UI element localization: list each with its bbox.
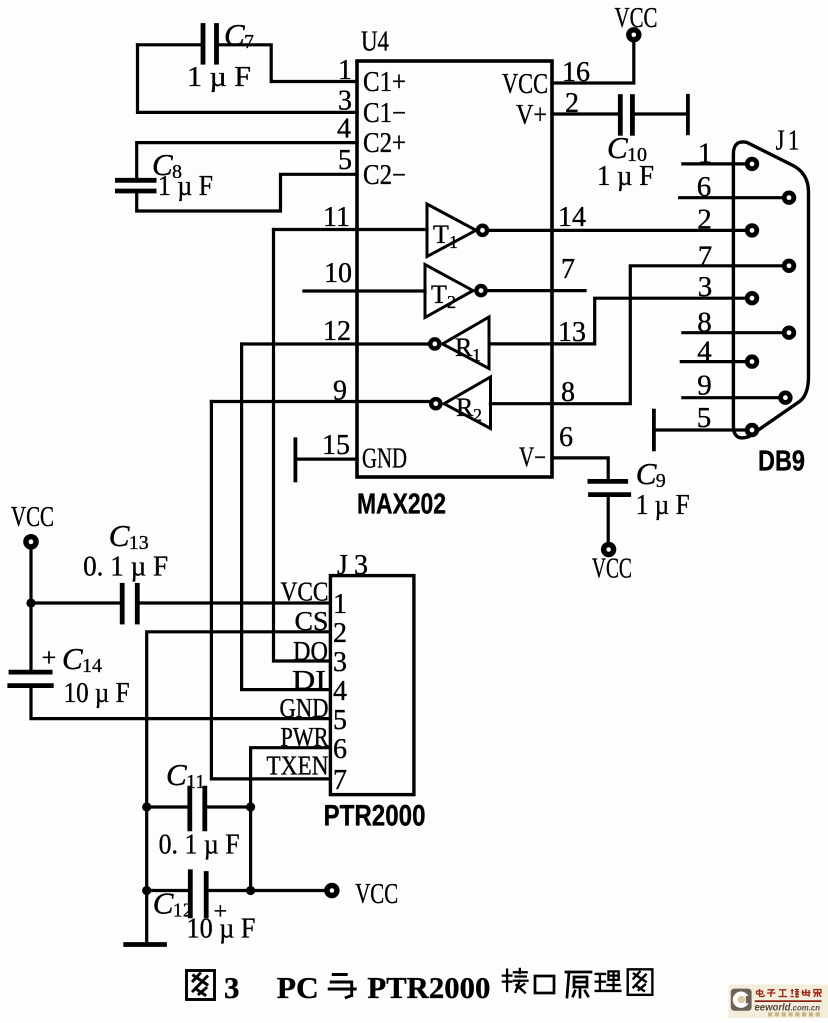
node VCC top terminal [629, 30, 639, 40]
svg-text:C: C [636, 456, 657, 491]
wire R1 input pin 13 to DB9 pin 3 [489, 298, 750, 344]
junction dot C12 left [142, 886, 151, 895]
transistor Q1 : line driver T1 triangle [427, 204, 476, 257]
svg-text:VCC: VCC [355, 878, 398, 910]
contact J1 pin 4 [747, 357, 757, 367]
svg-text:PWR: PWR [281, 722, 329, 752]
svg-text:PC: PC [277, 970, 319, 1005]
wire pin 10 stub to T2 input [304, 289, 425, 292]
svg-text:PTR2000: PTR2000 [367, 970, 490, 1005]
svg-text:7: 7 [561, 254, 575, 285]
svg-text:1 µ F: 1 µ F [636, 490, 690, 521]
svg-text:15: 15 [322, 430, 350, 461]
svg-text:1: 1 [333, 589, 347, 620]
logo chinese title 电子工程世界 [757, 989, 822, 997]
svg-text:VCC: VCC [11, 502, 54, 533]
caption chars 接口原理图 [503, 969, 653, 997]
capacitor C9 [590, 479, 626, 484]
capacitor C12 [188, 872, 193, 916]
wire J3 VCC row left segment [31, 601, 120, 604]
svg-text:DI: DI [292, 665, 326, 695]
svg-text:R: R [456, 393, 474, 422]
wire pin 4 to C8 [137, 143, 357, 178]
svg-text:C: C [224, 17, 245, 52]
svg-text:VCC: VCC [615, 3, 658, 34]
svg-text:11: 11 [186, 771, 205, 793]
svg-text:12: 12 [323, 316, 351, 347]
wire pin 12 down to J3 DI [242, 344, 331, 690]
svg-text:14: 14 [558, 202, 586, 233]
svg-text:2: 2 [447, 292, 456, 312]
bubble R2 input [431, 399, 440, 408]
logo tagline dots [768, 1012, 820, 1016]
capacitor C13 [120, 585, 125, 622]
bubble T1 output [478, 226, 487, 235]
wire J3 CS row to ground rail [147, 632, 331, 941]
svg-text:4: 4 [697, 336, 712, 368]
junction dot VCC and J3 pin1 row [26, 598, 35, 607]
wire J1 pin 1 [683, 162, 748, 165]
terminator bar J1 pin 5 [652, 411, 656, 450]
svg-text:10 µ F: 10 µ F [64, 678, 130, 709]
contact J1 pin 7 [784, 261, 794, 271]
svg-text:5: 5 [697, 402, 712, 434]
svg-text:1: 1 [698, 137, 713, 169]
capacitor C10 [618, 97, 623, 134]
connector J1 DB9 shell [733, 142, 808, 438]
svg-text:6: 6 [559, 422, 573, 453]
wire pin 9 down to J3 TXEN [211, 402, 330, 779]
caption line: 图3 PC 与 PTR2000 接口原理图 [187, 971, 215, 1000]
svg-text:4: 4 [337, 114, 351, 145]
svg-text:V−: V− [519, 443, 546, 474]
svg-text:MAX202: MAX202 [357, 489, 446, 521]
wire J3 VCC row right segment [138, 601, 330, 604]
svg-text:GND: GND [280, 693, 329, 723]
svg-text:6: 6 [333, 734, 347, 765]
bubble T2 output [476, 286, 485, 295]
wire T1 output pin 14 to DB9 pin 2 [489, 229, 750, 232]
wire C7 left stub [138, 43, 202, 46]
svg-text:14: 14 [82, 655, 102, 677]
svg-text:+: + [42, 643, 57, 672]
connector J3 body [330, 576, 414, 795]
svg-text:2: 2 [333, 618, 347, 649]
svg-text:7: 7 [244, 31, 254, 53]
svg-text:1: 1 [472, 345, 481, 365]
node VCC left terminal [26, 537, 36, 547]
wire pin 11 row to T1 input [274, 228, 428, 231]
svg-text:9: 9 [697, 370, 712, 402]
transistor Q2 : line driver T2 triangle [425, 265, 473, 318]
ground [126, 942, 165, 947]
svg-text:3: 3 [698, 271, 713, 303]
wire T2 output pin 7 stub [488, 289, 586, 292]
wire pin 15 row [295, 458, 357, 461]
svg-text:C1+: C1+ [363, 67, 406, 98]
svg-text:CS: CS [295, 606, 329, 636]
svg-text:GND: GND [362, 444, 407, 475]
wire C11 row left [147, 805, 188, 808]
svg-text:VCC: VCC [502, 69, 548, 100]
svg-text:T: T [433, 220, 449, 249]
wire C10 right [635, 112, 688, 115]
svg-text:3: 3 [333, 647, 347, 678]
op-amp U1 : chip U4 MAX202 body [357, 61, 552, 477]
wire C12 row left [147, 889, 189, 892]
wire pin 6 V- to C9 [552, 458, 608, 479]
wire J3 PWR jog down [251, 748, 331, 891]
svg-text:0. 1 µ F: 0. 1 µ F [159, 830, 240, 861]
receiver R1 triangle [443, 317, 490, 369]
wire VCC rail down to C14 [29, 549, 32, 671]
svg-text:8: 8 [697, 307, 712, 339]
contact J1 pin 5 [747, 425, 757, 435]
svg-text:eeworld.com.cn: eeworld.com.cn [755, 1002, 821, 1013]
svg-text:C2−: C2− [363, 160, 406, 191]
svg-text:4: 4 [333, 676, 347, 707]
wire R2 input pin 8 to DB9 pin 7 [490, 266, 787, 404]
wire C8 bottom to pin 5 [137, 174, 357, 211]
logo red underline [755, 1000, 822, 1002]
svg-text:3: 3 [224, 970, 240, 1005]
svg-text:7: 7 [333, 765, 347, 796]
svg-text:1 µ F: 1 µ F [187, 62, 251, 93]
svg-text:C: C [153, 886, 174, 921]
svg-text:1: 1 [449, 232, 458, 252]
svg-text:C1−: C1− [363, 98, 406, 129]
svg-text:0. 1 µ F: 0. 1 µ F [83, 552, 168, 583]
junction dot C11 left [142, 802, 151, 811]
contact J1 pin 2 [747, 226, 757, 236]
svg-text:T: T [431, 280, 447, 309]
wire J1 pin 4 [681, 360, 748, 363]
wire C11 row right [207, 805, 251, 808]
wire J1 pin 6 [680, 196, 785, 199]
contact J1 pin 8 [784, 328, 794, 338]
node VCC bottom terminal [327, 886, 337, 896]
svg-text:R: R [455, 333, 473, 362]
svg-text:1 µ F: 1 µ F [597, 161, 654, 192]
logo eeworld background [729, 985, 828, 1019]
svg-text:C: C [62, 641, 83, 676]
wire pin 2 to C10 [552, 112, 620, 115]
svg-text:PTR2000: PTR2000 [324, 800, 426, 833]
logo icon C shape [733, 992, 749, 1008]
capacitor C8 [117, 178, 154, 183]
wire J1 pin 5 [654, 428, 748, 431]
svg-text:U4: U4 [361, 26, 389, 58]
svg-text:DB9: DB9 [758, 446, 805, 478]
logo icon square [731, 989, 752, 1011]
junction dot C11 right [246, 802, 255, 811]
wire C14 bottom to J3 GND row [31, 688, 330, 719]
capacitor C11 [187, 788, 192, 829]
wire C12 row right to VCC terminal [208, 889, 325, 892]
svg-text:TXEN: TXEN [267, 751, 329, 781]
receiver R2 triangle [444, 377, 491, 429]
svg-text:2: 2 [473, 405, 482, 425]
svg-text:6: 6 [697, 171, 712, 203]
capacitor C7 [201, 26, 206, 63]
svg-text:10: 10 [324, 258, 352, 289]
svg-text:C2+: C2+ [363, 128, 406, 159]
wire J1 pin 8 [683, 331, 785, 334]
svg-text:VCC: VCC [592, 554, 632, 585]
svg-text:V+: V+ [516, 100, 547, 131]
junction dot C12 right [246, 886, 255, 895]
svg-text:5: 5 [338, 145, 352, 176]
capacitor C14 [11, 670, 50, 675]
wire VCC to pin 16 [552, 42, 634, 84]
svg-text:1 µ F: 1 µ F [158, 171, 213, 202]
contact J1 pin 9 [781, 393, 791, 403]
svg-text:C: C [607, 130, 628, 165]
svg-text:7: 7 [698, 241, 713, 273]
contact J1 pin 1 [747, 159, 757, 169]
svg-text:C: C [166, 757, 187, 792]
svg-text:5: 5 [333, 705, 347, 736]
wire pin 9 row to R2 output [211, 400, 430, 403]
bubble R1 input [430, 339, 439, 348]
svg-text:J1: J1 [776, 126, 803, 157]
svg-text:J3: J3 [337, 550, 374, 581]
svg-text:DO: DO [293, 636, 328, 666]
svg-text:C: C [109, 518, 130, 553]
svg-text:10 µ F: 10 µ F [187, 914, 256, 945]
contact J1 pin 6 [784, 193, 794, 203]
caption char yu [329, 975, 355, 998]
node VCC under C9 [604, 545, 614, 555]
terminator bar pin 15 [293, 439, 297, 480]
svg-text:2: 2 [697, 203, 712, 235]
wire pin 12 row to R1 output [242, 342, 429, 345]
contact J1 pin 3 [747, 293, 757, 303]
wire pin 11 down to J3 DO [274, 230, 331, 662]
wire J1 pin 9 [683, 396, 781, 399]
wire C7 right to pin 1 [219, 45, 358, 82]
svg-text:9: 9 [656, 470, 666, 492]
svg-text:VCC: VCC [281, 577, 329, 607]
wire C9 to VCC terminal [607, 497, 610, 543]
wire C7 left down to pin 3 [138, 45, 358, 113]
terminator bar C10 right [686, 96, 690, 134]
